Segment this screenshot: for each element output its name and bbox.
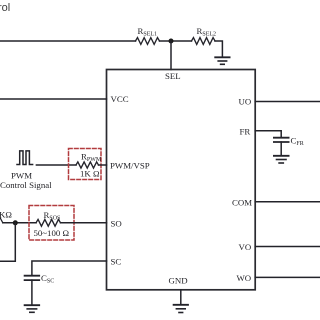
red dashed box around R_SOS [29,206,74,241]
svg-text:SEL: SEL [165,71,181,81]
wire GND pin down [180,290,182,304]
svg-text:WO: WO [237,273,252,283]
node junction dot [169,39,174,44]
svg-text:RSEL1: RSEL1 [138,26,158,38]
wire to R_SOS [3,222,36,224]
wire COM to right edge [255,201,320,203]
svg-text:1K Ω: 1K Ω [80,169,100,179]
svg-text:VCC: VCC [111,94,129,104]
wire UO to right edge [255,101,320,103]
red dashed box around R_PWM [69,149,102,180]
svg-text:Control Signal: Control Signal [0,180,52,190]
svg-text:GND: GND [169,276,188,286]
wire VO to right edge [255,246,320,248]
wire R_SEL1 to R_SEL2 [160,40,192,42]
wire VCC from left edge [0,98,107,100]
wire WO to right edge [255,276,320,278]
node junction dot (SO net) [13,220,18,225]
ground (top right) [215,57,229,64]
IC box U1 [107,70,256,290]
resistor R_PWM [76,152,102,179]
wire PWM source to R_PWM [36,164,76,166]
resistor tail at left edge (cut off) [0,218,3,223]
capacitor C_SC [25,276,40,305]
wire from node down and out left edge [0,223,15,261]
resistor R_SOS [34,210,70,238]
svg-text:RSEL2: RSEL2 [197,26,217,38]
wire FR to C_FR [255,131,281,137]
wire left edge to R_SEL1 [0,40,136,42]
resistor R_SEL1 [136,26,160,44]
svg-text:UO: UO [239,97,252,107]
PWM source square-wave symbol [17,151,33,165]
ground below C_FR [274,156,289,163]
resistor R_SEL2 [192,26,217,44]
svg-text:50~100 Ω: 50~100 Ω [34,228,70,238]
svg-text:FR: FR [240,127,251,137]
capacitor C_FR [274,138,289,155]
svg-text:SO: SO [111,219,122,229]
wire R_SEL2 to ground [215,41,222,56]
svg-text:PWM: PWM [11,171,32,181]
svg-text:CFR: CFR [291,136,304,148]
svg-text:RSOS: RSOS [44,210,61,222]
ground below GND [174,305,188,313]
svg-text:VO: VO [239,242,252,252]
svg-text:RPWM: RPWM [81,152,102,164]
svg-text:KΩ: KΩ [0,210,12,220]
ground below C_SC [25,305,40,312]
svg-text:PWM/VSP: PWM/VSP [110,161,150,171]
wire R_PWM to IC [99,164,107,166]
wire C_SC to IC (SC pin) [32,261,107,275]
svg-text:SC: SC [111,257,122,267]
svg-text:rol: rol [0,2,10,14]
wire R_SOS to IC (SO pin) [61,222,107,224]
svg-text:CSC: CSC [41,273,54,285]
wire node to SEL pin [170,41,172,70]
svg-text:COM: COM [232,198,252,208]
